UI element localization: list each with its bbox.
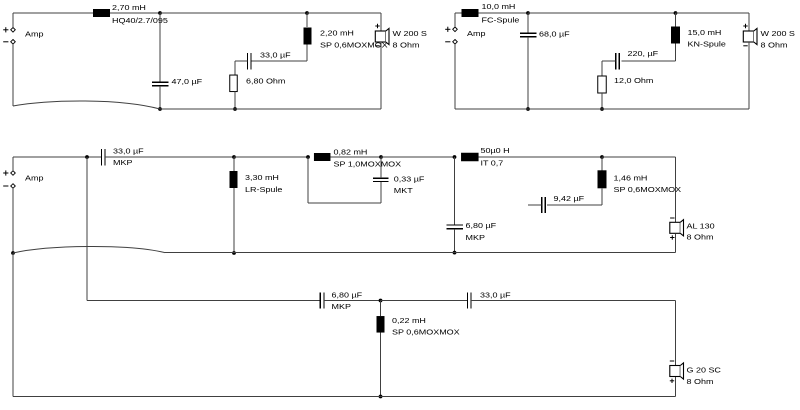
svg-text:33,0 µF: 33,0 µF [113,147,144,155]
capacitor 6,80 uF MKP tweeter type label [332,303,351,311]
capacitor 9,42 uF label [554,195,585,203]
svg-text:LR-Spule: LR-Spule [245,186,283,194]
svg-text:G 20 SC: G 20 SC [687,366,722,374]
svg-text:8 Ohm: 8 Ohm [761,41,788,49]
node junction [232,155,236,159]
node junction [379,299,383,303]
wire [479,156,603,158]
inductor 3,30 mH type label [245,186,283,194]
svg-text:0,82 mH: 0,82 mH [334,148,368,156]
wire [454,157,456,225]
node junction [306,155,310,159]
wire [675,377,677,397]
resistor 12,0 Ohm [598,76,607,93]
svg-text:50µ0 H: 50µ0 H [481,147,510,155]
svg-text:10,0 mH: 10,0 mH [482,3,516,11]
wire [308,157,381,203]
wire [380,301,382,317]
inductor 15,0 mH KN-Spule [671,27,680,44]
wire [12,188,14,253]
wire [110,12,160,14]
wire [748,42,750,109]
svg-text:220, µF: 220, µF [628,50,659,58]
amp label (circuit 2) [467,30,486,38]
speaker W 200 S label [393,30,428,38]
node + amp terminal (circuit 1) [3,27,15,32]
capacitor 6,80 uF MKP (shunt) [446,225,463,229]
node junction [453,155,457,159]
svg-text:6,80 Ohm: 6,80 Ohm [246,77,286,85]
node junction [158,107,162,111]
svg-text:IT 0,7: IT 0,7 [481,159,504,167]
wire [381,300,468,302]
svg-text:AL 130: AL 130 [687,222,716,230]
speaker W 200 S (circuit 2) [743,24,757,46]
wire [105,156,234,158]
wire [159,86,161,109]
inductor 10,0 mH type label [482,17,520,25]
capacitor 6,80 uF MKP (tweeter) [320,293,324,309]
svg-text:6,80 µF: 6,80 µF [466,222,497,230]
wire [307,13,381,31]
capacitor 33,0 uF (tweeter) [467,293,471,309]
amp label (circuit 1) [25,30,44,38]
inductor 10,0 mH value label [482,3,516,11]
svg-text:MKP: MKP [113,159,132,167]
node - amp terminal (circuit 1) [3,40,15,45]
node - amp terminal (circuit 3) [3,184,15,189]
speaker W 200 S impedance label [393,41,420,49]
node junction [233,107,237,111]
inductor 0,22 mH value label [392,317,426,325]
node + amp terminal (circuit 3) [3,170,15,175]
wire [87,157,320,301]
svg-text:SP 0,6MOXMOX: SP 0,6MOXMOX [392,328,460,336]
svg-text:SP 0,6MOXMOX: SP 0,6MOXMOX [614,186,682,194]
node junction [526,107,530,111]
inductor 15,0 mH type label [688,40,727,48]
capacitor 6,80 uF MKP tweeter value label [332,291,363,299]
wire [602,157,676,222]
capacitor 0,33 uF MKT [373,178,389,181]
svg-text:8 Ohm: 8 Ohm [687,233,714,241]
inductor 3,30 mH value label [245,174,279,182]
wire [455,108,749,110]
wire [380,333,382,397]
wire [479,12,529,14]
svg-text:3,30 mH: 3,30 mH [245,174,279,182]
wire [471,301,676,366]
wire [13,253,676,397]
wire [160,108,381,110]
inductor 0,82 mH value label [334,148,368,156]
svg-text:33,0 µF: 33,0 µF [260,51,291,59]
wire [381,156,455,158]
capacitor 68,0 uF label [539,30,570,38]
node junction [453,251,457,255]
wire [13,44,160,109]
svg-text:Amp: Amp [25,174,44,182]
capacitor 6,80 uF MKP value label [466,222,497,230]
svg-text:MKP: MKP [332,303,351,311]
capacitor 47,0 uF [152,82,169,86]
wire [675,234,677,253]
wire [547,188,602,205]
wire [233,157,235,172]
inductor 1,46 mH type label [614,186,682,194]
svg-text:8 Ohm: 8 Ohm [393,41,420,49]
node - amp terminal (circuit 2) [445,40,457,45]
wire [13,246,676,253]
capacitor 220 uF label [628,50,659,58]
svg-text:Amp: Amp [25,30,44,38]
node junction [379,395,383,399]
capacitor 33,0 uF MKP type label [113,159,132,167]
speaker AL 130 label [687,222,716,230]
wire [528,204,542,206]
svg-text:SP 1,0MOXMOX: SP 1,0MOXMOX [334,160,402,168]
inductor 15,0 mH value label [688,29,722,37]
resistor 12,0 Ohm label [614,77,654,85]
wire [455,13,462,27]
wire [324,300,381,302]
wire [251,45,307,62]
wire [676,13,750,31]
inductor 2,20 mH type label [320,41,388,49]
wire [160,12,307,14]
inductor 0,82 mH SP 1,0MOXMOX [314,153,331,161]
inductor 2,70 mH value label [112,4,146,12]
wire [601,157,603,170]
wire [528,12,676,14]
wire [380,157,382,178]
speaker W 200 S impedance label (circuit 2) [761,41,788,49]
capacitor 33,0 uF label [260,51,291,59]
svg-text:0,22 mH: 0,22 mH [392,317,426,325]
svg-text:MKT: MKT [394,187,413,195]
wire [527,13,529,33]
inductor 10,0 mH FC-Spule [462,9,479,17]
wire [675,13,677,27]
inductor 2,70 mH HQ40/2.7/095 [93,9,110,17]
capacitor 33,0 uF MKP (series) [102,149,106,166]
resistor 6,80 Ohm [230,75,238,92]
wire [159,13,161,82]
node junction [600,107,604,111]
inductor 0,22 mH type label [392,328,460,336]
svg-text:MKP: MKP [466,234,485,242]
svg-text:Amp: Amp [467,30,486,38]
wire [454,44,456,109]
inductor 50u0 H IT 0,7 [461,153,479,162]
wire [602,61,616,76]
capacitor 6,80 uF MKP type label [466,234,485,242]
wire [13,13,93,28]
capacitor 33,0 uF (circuit 1) [247,53,251,70]
svg-text:12,0 Ohm: 12,0 Ohm [614,77,654,85]
node junction [158,11,162,15]
svg-text:2,70 mH: 2,70 mH [112,4,146,12]
svg-text:8 Ohm: 8 Ohm [687,378,714,386]
svg-text:68,0 µF: 68,0 µF [539,30,570,38]
wire [601,93,603,109]
inductor 2,20 mH SP 0,6MOXMOX [304,28,312,45]
resistor 6,80 Ohm label [246,77,286,85]
speaker G 20 SC impedance label [687,378,714,386]
node junction [600,155,604,159]
svg-text:KN-Spule: KN-Spule [688,40,727,48]
wire [306,13,308,27]
speaker AL 130 impedance label [687,233,714,241]
inductor 2,70 mH type label [112,17,168,25]
wire [235,61,247,75]
capacitor 0,33 uF value label [394,175,425,183]
wire [234,92,236,110]
capacitor 33,0 uF MKP value label [113,147,144,155]
speaker W 200 S (circuit 1) [375,24,389,46]
node junction [674,11,678,15]
speaker W 200 S label (circuit 2) [761,30,796,38]
svg-text:W 200 S: W 200 S [393,30,428,38]
node junction [526,11,530,15]
node junction [305,11,309,15]
inductor 1,46 mH SP 0,6MOXMOX [598,170,607,188]
capacitor 0,33 uF type label [394,187,413,195]
wire [13,157,101,171]
capacitor 9,42 uF [542,197,546,213]
speaker G 20 SC label [687,366,722,374]
svg-text:0,33 µF: 0,33 µF [394,175,425,183]
capacitor 68,0 uF [520,33,537,37]
svg-text:15,0 mH: 15,0 mH [688,29,722,37]
wire [380,42,382,109]
svg-text:9,42 µF: 9,42 µF [554,195,585,203]
capacitor 33,0 uF tweeter label [480,291,511,299]
node junction [232,251,236,255]
svg-text:W 200 S: W 200 S [761,30,796,38]
capacitor 220 uF [616,53,620,70]
wire [234,156,308,158]
node junction [11,251,15,255]
svg-text:33,0 µF: 33,0 µF [480,291,511,299]
inductor 0,82 mH type label [334,160,402,168]
inductor 2,20 mH value label [320,29,354,37]
wire [331,156,382,158]
node junction [85,155,89,159]
speaker G 20 SC [670,361,684,383]
inductor 1,46 mH value label [614,174,648,182]
svg-text:FC-Spule: FC-Spule [482,17,520,25]
node + amp terminal (circuit 2) [445,27,457,32]
node junction [379,155,383,159]
amp label (circuit 3) [25,174,44,182]
wire [527,37,529,109]
wire [454,229,456,253]
wire [621,44,675,62]
svg-text:6,80 µF: 6,80 µF [332,291,363,299]
inductor 50u0 H value label [481,147,510,155]
inductor 0,22 mH SP 0,6MOXMOX (tweeter) [377,316,385,333]
inductor 3,30 mH LR-Spule [230,171,238,188]
inductor 50u0 H type label [481,159,504,167]
svg-text:1,46 mH: 1,46 mH [614,174,648,182]
wire [233,188,235,253]
capacitor 47,0 uF label [172,78,203,86]
svg-text:2,20 mH: 2,20 mH [320,29,354,37]
speaker AL 130 [670,218,684,240]
svg-text:47,0 µF: 47,0 µF [172,78,203,86]
